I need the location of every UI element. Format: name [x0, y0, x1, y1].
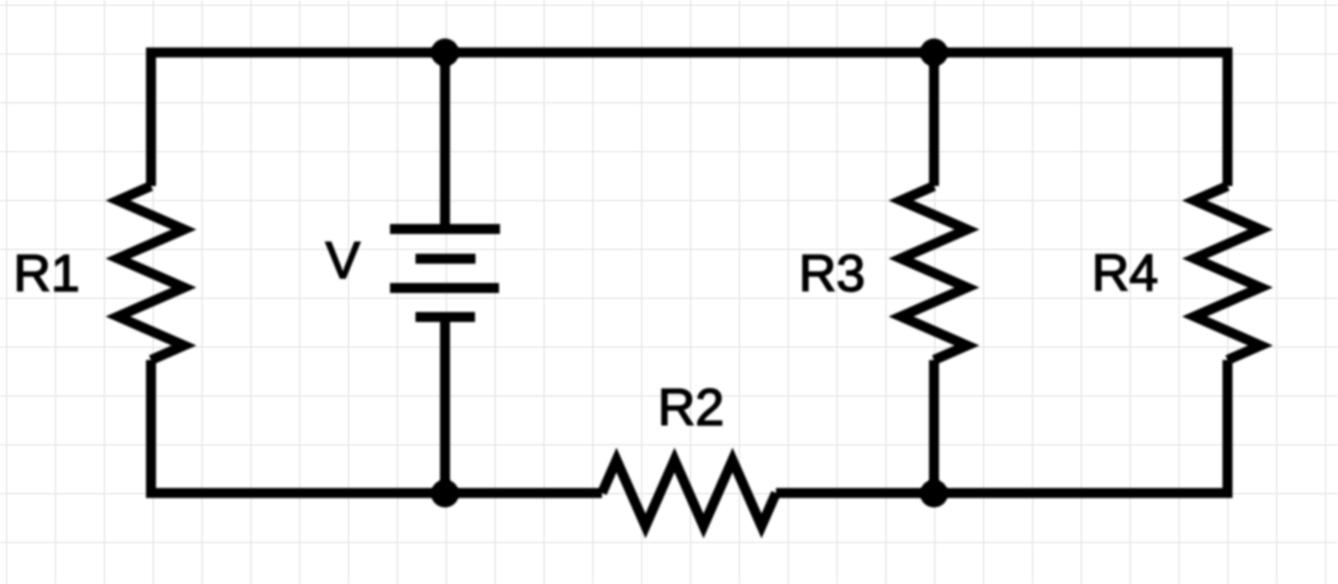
- wire right branch bottom: [1223, 360, 1233, 498]
- wire left branch top: [146, 48, 156, 187]
- node junction dot top of battery: [431, 39, 459, 67]
- wire R3 branch top: [929, 53, 939, 187]
- resistor R3: [901, 186, 967, 360]
- wire battery top: [440, 53, 450, 230]
- svg-text:R2: R2: [658, 379, 724, 437]
- wire bottom rail left: [151, 488, 602, 498]
- resistor R2: [602, 460, 776, 526]
- wire right branch top: [1223, 48, 1233, 187]
- svg-text:V: V: [325, 232, 360, 290]
- svg-text:R4: R4: [1092, 245, 1158, 303]
- battery V plate 2: [416, 254, 476, 264]
- node junction dot bottom of R3: [920, 480, 948, 508]
- wire bottom rail right: [776, 488, 1228, 498]
- wire top rail: [151, 48, 1228, 58]
- resistor R4: [1195, 186, 1261, 360]
- battery V plate 3: [390, 283, 499, 293]
- wire R3 branch bottom: [929, 360, 939, 493]
- battery V plate 4: [416, 312, 476, 322]
- battery V plate 1: [390, 224, 500, 234]
- resistor R1: [118, 186, 184, 360]
- svg-text:R3: R3: [799, 245, 865, 303]
- node junction dot top of R3: [920, 39, 948, 67]
- svg-text:R1: R1: [13, 245, 79, 303]
- node junction dot bottom of battery: [431, 480, 459, 508]
- wire left branch bottom: [146, 360, 156, 498]
- wire battery bottom: [440, 317, 450, 493]
